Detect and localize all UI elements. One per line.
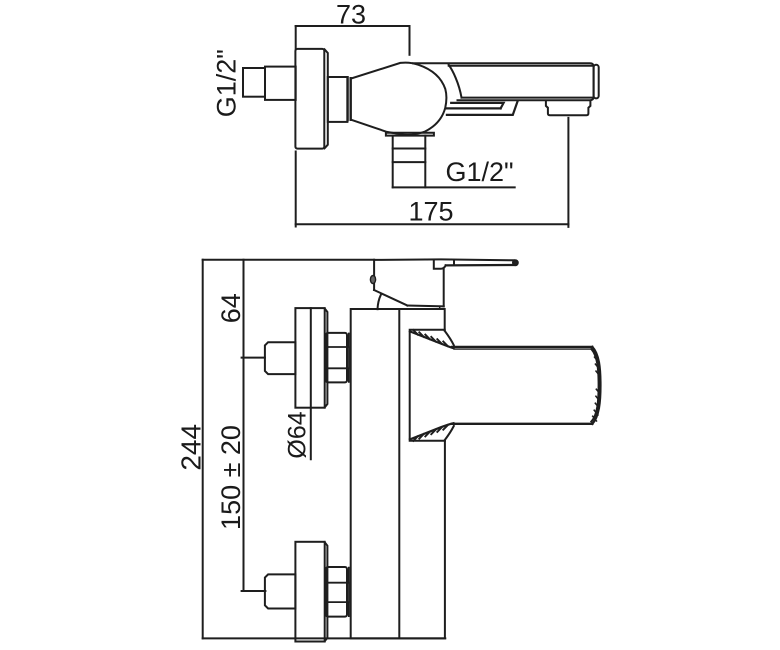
shower outlet pipe sides (top view) [393, 136, 426, 188]
dimension 64 label (rotated) [216, 293, 246, 323]
shower outlet flange (top view) [386, 133, 434, 136]
wall flange escutcheon (top view) [295, 49, 324, 149]
dimension 244 line [202, 260, 204, 639]
handle lower-left slant [374, 290, 407, 306]
wall flange 3D edge [325, 49, 328, 148]
spout inner bottom line [462, 97, 593, 99]
dimension 73 left extension [295, 26, 297, 49]
svg-text:175: 175 [408, 197, 453, 227]
spout end arc inner [591, 349, 598, 422]
handle notch under lever [434, 261, 446, 269]
upper hex nut [326, 333, 347, 383]
spout cylinder bottom edge [452, 423, 592, 425]
diameter 64 leader line [310, 308, 312, 459]
lever end cap [513, 260, 518, 265]
upper supply pipe (front view) [265, 342, 296, 374]
spout end cap (top view) [594, 65, 599, 99]
dimension 73 line [296, 25, 410, 27]
spout outline (top view) [413, 63, 594, 100]
spout flange disc (front view) [410, 330, 445, 441]
bottom extension line [203, 637, 446, 639]
dimension 150 +/- 20 label (rotated) [216, 425, 246, 530]
handle top edge and lever top [374, 258, 514, 261]
spout underside recess line 2 [446, 107, 501, 109]
mixer body egg-shaped outline (top view) [351, 63, 447, 135]
svg-text:64: 64 [216, 293, 246, 323]
body outline (front view) [351, 309, 445, 638]
svg-text:G1/2": G1/2" [212, 49, 242, 117]
handle bottom edge [407, 305, 443, 308]
lever joint line [453, 261, 455, 265]
label diameter 64 (rotated) [283, 411, 311, 458]
wall supply pipe G1/2 (top view, connector body) [265, 67, 296, 100]
spout trumpet bottom silhouette [410, 423, 454, 439]
handle indicator oval [370, 276, 375, 284]
dimension 175 line [296, 223, 569, 225]
tick upper pipe centre [242, 357, 265, 359]
handle base right tick [439, 306, 441, 308]
lower supply pipe (front view) [265, 574, 296, 608]
shower outlet bottom + leader line [393, 186, 515, 188]
spout cylinder top edges [452, 346, 592, 348]
aerator nozzle (top view) [546, 101, 591, 115]
dimension 73 right extension [409, 26, 411, 55]
tick lower pipe centre [242, 590, 266, 592]
spout inner top line [449, 65, 592, 67]
svg-text:Ø64: Ø64 [283, 411, 311, 458]
shower outlet pipe thread lines [393, 149, 426, 163]
spout trumpet bottom curve [445, 426, 454, 440]
mixer body left end faces (top view) [346, 77, 348, 120]
connector between flange and body (top view) [328, 77, 348, 122]
spout underside recess line 3 [447, 101, 518, 115]
dimension 244 label (rotated) [176, 424, 207, 471]
lever bottom edge [446, 264, 514, 267]
svg-text:150 ± 20: 150 ± 20 [216, 425, 246, 530]
dimension 175 left extension (below flange) [295, 152, 297, 227]
spout end hatching [593, 350, 600, 421]
dimension 175 label [408, 197, 453, 227]
dimension 175 right extension [567, 118, 569, 227]
svg-text:244: 244 [176, 424, 207, 471]
svg-text:G1/2": G1/2" [445, 157, 513, 187]
top extension line [203, 259, 374, 261]
wall supply pipe G1/2 (top view, threaded end) [243, 68, 265, 97]
spout trumpet top curve [445, 331, 454, 345]
lower hex nut [326, 567, 347, 617]
upper wall flange 3D edge [325, 309, 328, 408]
svg-text:73: 73 [336, 0, 366, 29]
handle left edge [373, 260, 375, 290]
label G1/2 shower outlet [445, 157, 513, 187]
spout end arc outer [592, 347, 600, 424]
dimension 64 / 150 line [243, 260, 245, 591]
spout underside recess line 1 [451, 103, 503, 109]
lower wall flange (front view) [295, 542, 324, 642]
lower wall flange 3D edge [325, 542, 328, 641]
upper wall flange (front view) [295, 308, 324, 408]
handle right edge [443, 269, 445, 306]
spout trumpet top silhouette [410, 331, 454, 348]
spout trumpet bottom hatching [413, 425, 448, 441]
handle seam curve [378, 295, 381, 309]
body-spout neck curve (top view) [449, 65, 462, 98]
dimension 73 label [336, 0, 366, 29]
spout trumpet top hatching [413, 330, 448, 346]
label G1/2 inlet (rotated) [212, 49, 242, 117]
